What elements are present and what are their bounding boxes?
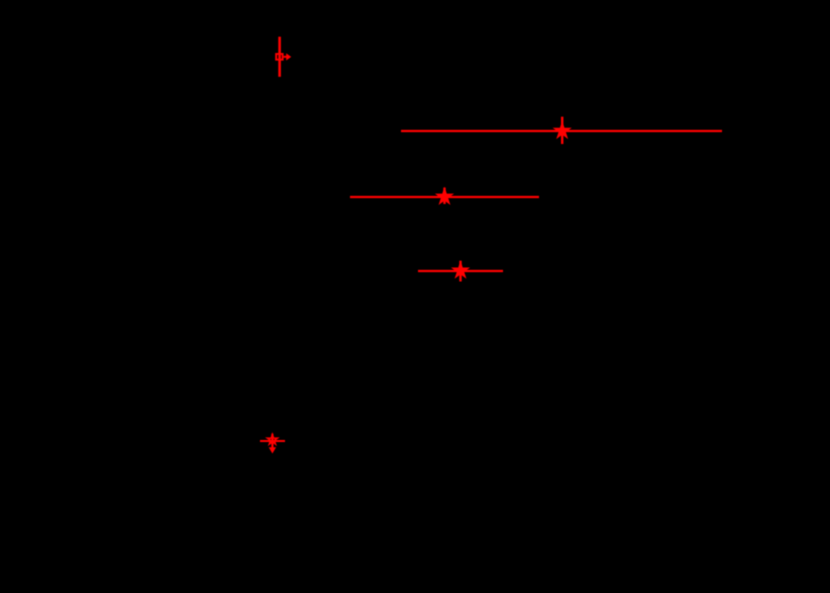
open star marker — [267, 435, 277, 444]
vertical error bar — [443, 188, 445, 204]
filled star marker — [452, 262, 468, 277]
data point 3: filled star with horizontal error bar — [350, 188, 539, 204]
vertical error bar — [561, 117, 563, 144]
vertical error bar — [459, 261, 461, 282]
horizontal error bar — [350, 196, 539, 198]
filled star marker — [554, 122, 570, 137]
data point 2: filled star with wide horizontal error bar — [401, 117, 722, 144]
data point 4: filled star with horizontal error bar — [418, 261, 503, 282]
filled star marker — [436, 188, 452, 203]
open square marker — [276, 54, 283, 60]
data point 1: open-square marker with vertical error bar and right arrow — [276, 37, 291, 77]
vertical error bar — [278, 37, 281, 77]
down arrow shaft — [271, 434, 273, 449]
down arrow head — [269, 447, 276, 453]
right arrow head — [286, 53, 291, 60]
horizontal error bar — [260, 440, 285, 442]
data point 5: open star upper limit with short horizontal error bar and down arrow — [260, 434, 285, 454]
horizontal error bar — [418, 270, 503, 272]
right arrow shaft — [284, 56, 287, 58]
horizontal error bar — [401, 130, 722, 132]
